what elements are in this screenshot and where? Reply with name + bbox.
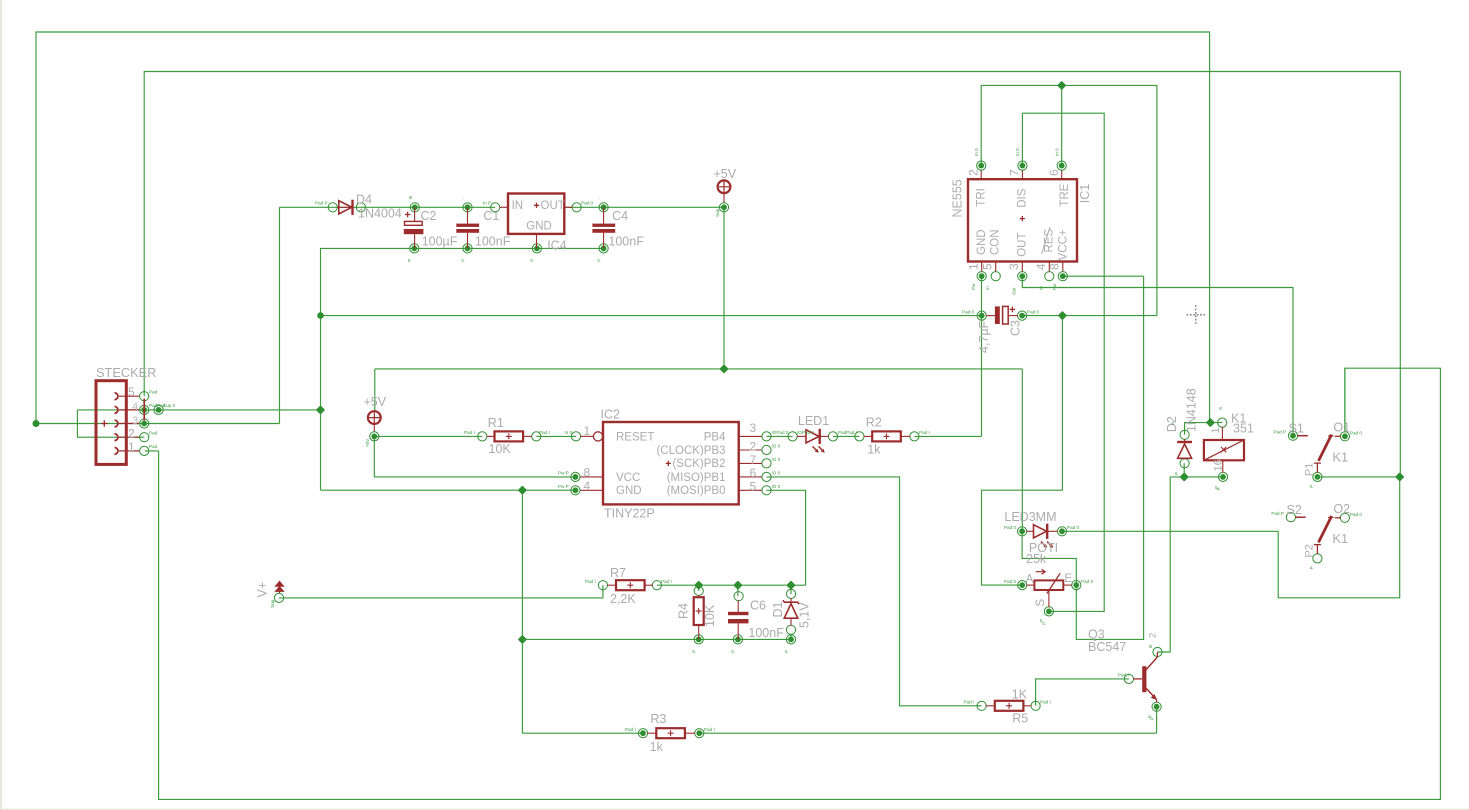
svg-text:P: P bbox=[460, 259, 465, 262]
svg-text:VCC+: VCC+ bbox=[1058, 229, 1070, 260]
svg-text:Sup: Sup bbox=[270, 599, 275, 608]
svg-text:P2: P2 bbox=[1303, 544, 1315, 557]
svg-text:OUT: OUT bbox=[1016, 233, 1028, 257]
svg-text:4,7µF: 4,7µF bbox=[977, 320, 991, 353]
svg-text:IN: IN bbox=[512, 200, 523, 212]
svg-text:In: In bbox=[985, 286, 990, 290]
svg-text:VCC: VCC bbox=[616, 472, 640, 484]
svg-text:6: 6 bbox=[750, 466, 757, 480]
svg-text:5: 5 bbox=[750, 480, 757, 494]
svg-text:S1: S1 bbox=[1289, 422, 1304, 436]
svg-text:Pad I: Pad I bbox=[919, 430, 930, 435]
svg-text:Pad: Pad bbox=[149, 431, 158, 436]
svg-text:DIS: DIS bbox=[1016, 188, 1028, 208]
svg-text:Pad 0: Pad 0 bbox=[962, 309, 974, 314]
svg-text:Pad P: Pad P bbox=[1274, 430, 1287, 435]
svg-text:4: 4 bbox=[132, 401, 138, 413]
svg-text:25k: 25k bbox=[1026, 552, 1047, 566]
svg-text:P: P bbox=[784, 650, 789, 653]
svg-text:GND: GND bbox=[976, 229, 988, 255]
svg-text:Pw: Pw bbox=[1052, 283, 1057, 290]
svg-text:BC547: BC547 bbox=[1088, 640, 1126, 654]
svg-text:Pad 0: Pad 0 bbox=[1081, 579, 1093, 584]
svg-text:1K: 1K bbox=[1012, 687, 1028, 701]
svg-text:Pad: Pad bbox=[149, 389, 158, 394]
svg-text:P: P bbox=[1309, 566, 1314, 569]
svg-text:Out: Out bbox=[1012, 287, 1017, 295]
svg-text:2,2K: 2,2K bbox=[610, 592, 636, 606]
svg-text:100nF: 100nF bbox=[748, 626, 784, 640]
svg-text:In P: In P bbox=[483, 201, 491, 206]
svg-text:PB4: PB4 bbox=[704, 431, 726, 443]
svg-text:P: P bbox=[1039, 619, 1044, 622]
svg-text:Pad I: Pad I bbox=[585, 579, 596, 584]
svg-text:1: 1 bbox=[128, 440, 135, 454]
svg-text:Pad I: Pad I bbox=[464, 430, 475, 435]
svg-text:STECKER: STECKER bbox=[96, 365, 156, 380]
svg-text:Pad 0: Pad 0 bbox=[1004, 525, 1016, 530]
svg-text:4: 4 bbox=[584, 479, 591, 493]
svg-text:1: 1 bbox=[1210, 427, 1222, 433]
svg-text:IOPad 0: IOPad 0 bbox=[772, 430, 789, 435]
svg-text:Pad I: Pad I bbox=[1118, 673, 1129, 678]
svg-text:In 0: In 0 bbox=[1015, 148, 1020, 156]
svg-text:2: 2 bbox=[1148, 633, 1159, 638]
svg-text:(CLOCK)PB3: (CLOCK)PB3 bbox=[656, 445, 725, 457]
svg-text:8: 8 bbox=[584, 465, 591, 479]
svg-text:TINY22P: TINY22P bbox=[604, 506, 655, 520]
svg-text:5: 5 bbox=[128, 385, 135, 399]
svg-text:A: A bbox=[1026, 574, 1034, 586]
svg-text:16: 16 bbox=[1213, 459, 1225, 471]
svg-text:IC1: IC1 bbox=[1078, 184, 1092, 204]
svg-text:O2: O2 bbox=[1333, 502, 1350, 516]
svg-text:P: P bbox=[596, 259, 601, 262]
svg-text:S: S bbox=[1218, 407, 1223, 410]
svg-text:C4: C4 bbox=[612, 209, 628, 223]
svg-text:P: P bbox=[1174, 472, 1179, 475]
svg-text:C3: C3 bbox=[1009, 320, 1023, 336]
svg-text:Sup: Sup bbox=[715, 208, 720, 217]
svg-text:Pad 0: Pad 0 bbox=[1350, 430, 1362, 435]
svg-text:10K: 10K bbox=[703, 604, 717, 627]
svg-text:IC2: IC2 bbox=[601, 407, 621, 421]
svg-text:P: P bbox=[692, 650, 697, 653]
svg-text:1: 1 bbox=[967, 263, 981, 270]
svg-text:In: In bbox=[1039, 286, 1044, 290]
svg-text:In 0: In 0 bbox=[974, 148, 979, 156]
svg-text:Pad I: Pad I bbox=[625, 727, 636, 732]
svg-text:LED1: LED1 bbox=[798, 414, 829, 428]
svg-text:R5: R5 bbox=[1012, 711, 1028, 725]
svg-text:2: 2 bbox=[128, 426, 135, 440]
svg-text:Pad 0: Pad 0 bbox=[1027, 309, 1039, 314]
svg-text:GND: GND bbox=[526, 220, 552, 232]
svg-text:2: 2 bbox=[750, 440, 757, 454]
svg-text:NE555: NE555 bbox=[951, 179, 965, 217]
svg-text:B: B bbox=[408, 196, 413, 199]
svg-text:Pad P: Pad P bbox=[1271, 511, 1284, 516]
svg-text:P: P bbox=[1149, 717, 1154, 720]
svg-text:P: P bbox=[1216, 487, 1221, 490]
svg-text:TRI: TRI bbox=[976, 188, 988, 207]
svg-text:Pad P: Pad P bbox=[315, 201, 328, 206]
svg-text:1N4004: 1N4004 bbox=[358, 207, 402, 221]
svg-text:PadPad I: PadPad I bbox=[838, 430, 857, 435]
svg-text:2: 2 bbox=[967, 169, 981, 176]
svg-text:OUT: OUT bbox=[541, 200, 565, 212]
svg-text:Pad I: Pad I bbox=[1040, 700, 1051, 705]
svg-text:C2: C2 bbox=[421, 209, 437, 223]
svg-text:P: P bbox=[530, 259, 535, 262]
svg-text:Pad I: Pad I bbox=[704, 727, 715, 732]
svg-text:TRE: TRE bbox=[1059, 183, 1071, 206]
svg-text:Pad 0: Pad 0 bbox=[1350, 512, 1362, 517]
svg-text:6: 6 bbox=[1047, 169, 1061, 176]
svg-text:5,1V: 5,1V bbox=[798, 602, 812, 628]
svg-text:IO 0: IO 0 bbox=[772, 484, 781, 489]
svg-text:LED3MM: LED3MM bbox=[1004, 510, 1056, 524]
svg-text:R1: R1 bbox=[488, 416, 504, 430]
svg-text:GND: GND bbox=[616, 485, 642, 497]
svg-text:8: 8 bbox=[1048, 263, 1062, 270]
svg-text:1k: 1k bbox=[650, 740, 664, 754]
svg-text:R7: R7 bbox=[610, 566, 626, 580]
svg-text:C6: C6 bbox=[750, 599, 766, 613]
svg-text:+5V: +5V bbox=[365, 438, 370, 447]
svg-text:S: S bbox=[1170, 422, 1175, 425]
svg-text:100nF: 100nF bbox=[475, 234, 511, 248]
svg-text:P: P bbox=[1042, 622, 1047, 625]
svg-text:Pad 0: Pad 0 bbox=[1067, 525, 1079, 530]
svg-text:R4: R4 bbox=[677, 603, 691, 619]
svg-text:K1: K1 bbox=[1332, 531, 1348, 546]
svg-text:100µF: 100µF bbox=[422, 234, 458, 248]
svg-text:7: 7 bbox=[750, 453, 757, 467]
svg-text:IO 0: IO 0 bbox=[772, 444, 781, 449]
svg-text:7: 7 bbox=[1008, 169, 1022, 176]
svg-text:3: 3 bbox=[132, 415, 138, 427]
svg-text:R2: R2 bbox=[866, 416, 882, 430]
svg-text:E: E bbox=[1064, 573, 1072, 585]
svg-text:1N4148: 1N4148 bbox=[1185, 388, 1199, 432]
svg-text:D4: D4 bbox=[356, 193, 372, 207]
svg-text:RESET: RESET bbox=[616, 431, 654, 443]
svg-text:10K: 10K bbox=[489, 442, 512, 456]
svg-text:1k: 1k bbox=[867, 443, 881, 457]
svg-text:P: P bbox=[1309, 485, 1314, 488]
svg-text:Pw: Pw bbox=[971, 283, 976, 290]
svg-text:Pad 0: Pad 0 bbox=[1004, 579, 1016, 584]
svg-text:351: 351 bbox=[1233, 421, 1254, 435]
svg-text:Pw P: Pw P bbox=[558, 471, 569, 476]
svg-text:RES: RES bbox=[1043, 229, 1055, 253]
svg-text:V+: V+ bbox=[256, 582, 270, 598]
svg-text:S: S bbox=[1035, 599, 1047, 607]
svg-text:+5V: +5V bbox=[714, 167, 737, 181]
svg-text:Pad I: Pad I bbox=[661, 579, 672, 584]
svg-text:IOPad 0: IOPad 0 bbox=[797, 430, 814, 435]
svg-text:Pw P: Pw P bbox=[558, 484, 569, 489]
svg-text:K1: K1 bbox=[1332, 450, 1348, 465]
svg-text:R3: R3 bbox=[650, 712, 666, 726]
svg-text:4: 4 bbox=[1034, 263, 1048, 270]
svg-text:P: P bbox=[731, 650, 736, 653]
svg-text:+5V: +5V bbox=[364, 395, 387, 409]
svg-text:(SCK)PB2: (SCK)PB2 bbox=[672, 458, 725, 470]
svg-text:D1: D1 bbox=[771, 601, 785, 617]
svg-text:P: P bbox=[407, 259, 412, 262]
svg-text:Pad I: Pad I bbox=[539, 430, 550, 435]
svg-text:IO 0: IO 0 bbox=[772, 457, 781, 462]
svg-text:Pad 0: Pad 0 bbox=[581, 201, 593, 206]
svg-text:Pad I: Pad I bbox=[964, 700, 975, 705]
svg-text:(MISO)PB1: (MISO)PB1 bbox=[667, 472, 726, 484]
svg-text:Sup 0: Sup 0 bbox=[163, 403, 175, 408]
svg-text:100nF: 100nF bbox=[608, 234, 644, 248]
svg-text:(MOSI)PB0: (MOSI)PB0 bbox=[667, 485, 726, 497]
svg-text:In 0: In 0 bbox=[565, 430, 573, 435]
svg-text:3: 3 bbox=[1007, 263, 1021, 270]
svg-text:3: 3 bbox=[750, 421, 757, 435]
svg-text:O1: O1 bbox=[1333, 421, 1350, 435]
svg-text:P1: P1 bbox=[1303, 463, 1315, 476]
svg-text:S2: S2 bbox=[1287, 503, 1302, 517]
svg-text:1: 1 bbox=[584, 424, 591, 438]
svg-text:B: B bbox=[1148, 645, 1153, 648]
svg-text:CON: CON bbox=[989, 229, 1001, 255]
svg-text:Pad: Pad bbox=[149, 444, 158, 449]
svg-text:5: 5 bbox=[981, 263, 995, 270]
svg-text:IC4: IC4 bbox=[547, 238, 567, 252]
svg-text:IO 0: IO 0 bbox=[772, 470, 781, 475]
svg-text:In 0: In 0 bbox=[1055, 148, 1060, 156]
